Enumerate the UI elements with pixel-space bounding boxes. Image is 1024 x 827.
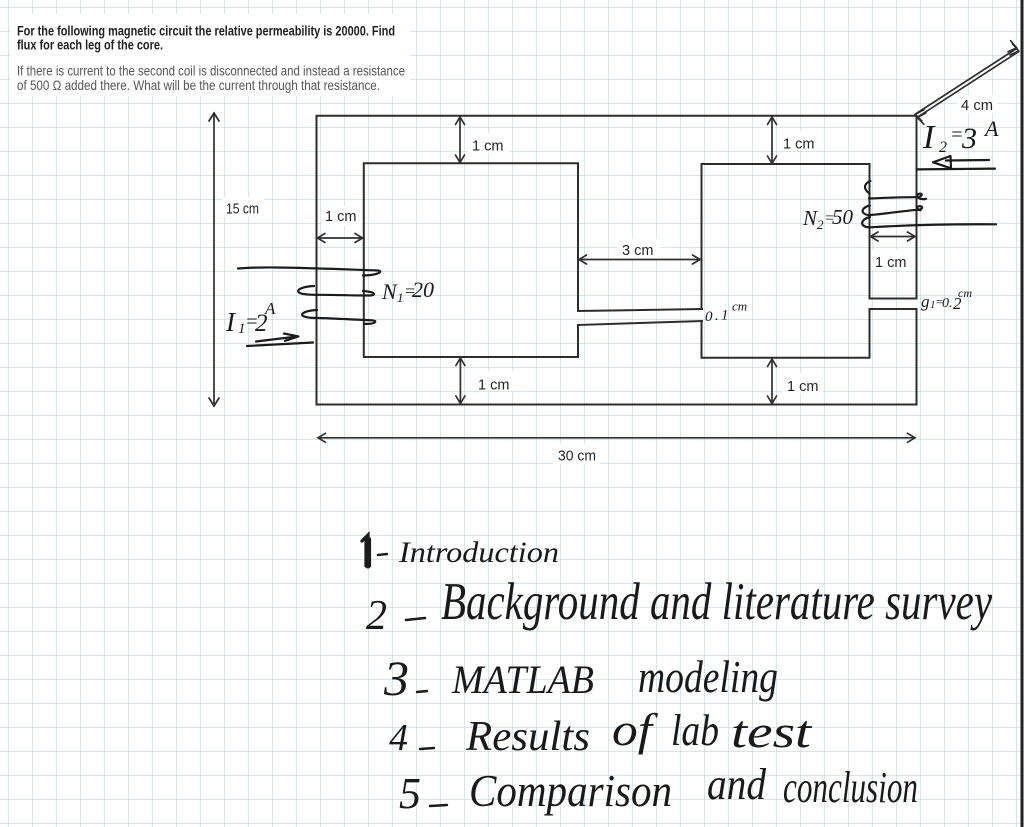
svg-text:4: 4 xyxy=(389,717,408,759)
svg-text:1 cm: 1 cm xyxy=(478,378,509,394)
svg-text:Comparison: Comparison xyxy=(469,765,672,816)
svg-text:1 cm: 1 cm xyxy=(472,139,503,155)
svg-text:Results: Results xyxy=(465,714,590,760)
svg-text:4 cm: 4 cm xyxy=(961,98,993,114)
svg-text:MATLAB: MATLAB xyxy=(451,657,594,702)
svg-text:lab: lab xyxy=(671,706,719,755)
svg-text:of: of xyxy=(612,704,659,755)
svg-text:2: 2 xyxy=(939,139,947,156)
svg-text:1 cm: 1 cm xyxy=(325,209,356,225)
svg-text:1: 1 xyxy=(721,308,729,324)
svg-text:3 cm: 3 cm xyxy=(622,243,653,259)
svg-text:.: . xyxy=(715,308,719,324)
svg-text:30 cm: 30 cm xyxy=(558,449,596,465)
svg-text:20: 20 xyxy=(412,277,434,302)
svg-text:cm: cm xyxy=(958,286,972,300)
svg-text:0: 0 xyxy=(705,309,713,325)
svg-text:1 cm: 1 cm xyxy=(787,379,818,395)
svg-text:and: and xyxy=(707,760,767,809)
svg-text:2: 2 xyxy=(817,217,824,232)
svg-text:A: A xyxy=(264,299,276,318)
svg-text:A: A xyxy=(983,116,999,141)
svg-text:g: g xyxy=(921,292,930,311)
svg-text:1: 1 xyxy=(397,290,404,305)
svg-text:flux for each leg of the core.: flux for each leg of the core. xyxy=(17,37,163,53)
svg-text:modeling: modeling xyxy=(638,651,778,702)
svg-text:I: I xyxy=(225,307,237,337)
svg-text:1 cm: 1 cm xyxy=(875,255,906,271)
svg-text:3: 3 xyxy=(383,650,409,706)
svg-text:Background and literature surv: Background and literature survey xyxy=(441,573,992,631)
svg-text:of 500 Ω added there. What wil: of 500 Ω added there. What will be the c… xyxy=(17,77,380,93)
svg-text:2: 2 xyxy=(366,593,387,639)
svg-text:0.: 0. xyxy=(942,296,953,311)
svg-text:N: N xyxy=(381,279,398,304)
svg-text:5: 5 xyxy=(399,769,421,818)
svg-text:50: 50 xyxy=(832,205,854,229)
svg-text:1 cm: 1 cm xyxy=(783,137,814,153)
svg-text:N: N xyxy=(802,206,818,230)
svg-text:I: I xyxy=(922,119,936,156)
svg-text:Introduction: Introduction xyxy=(398,536,559,569)
svg-text:conclusion: conclusion xyxy=(783,763,918,812)
svg-text:cm: cm xyxy=(732,299,747,314)
svg-text:3: 3 xyxy=(961,122,977,155)
svg-text:15 cm: 15 cm xyxy=(226,202,259,218)
svg-text:test: test xyxy=(731,706,813,757)
